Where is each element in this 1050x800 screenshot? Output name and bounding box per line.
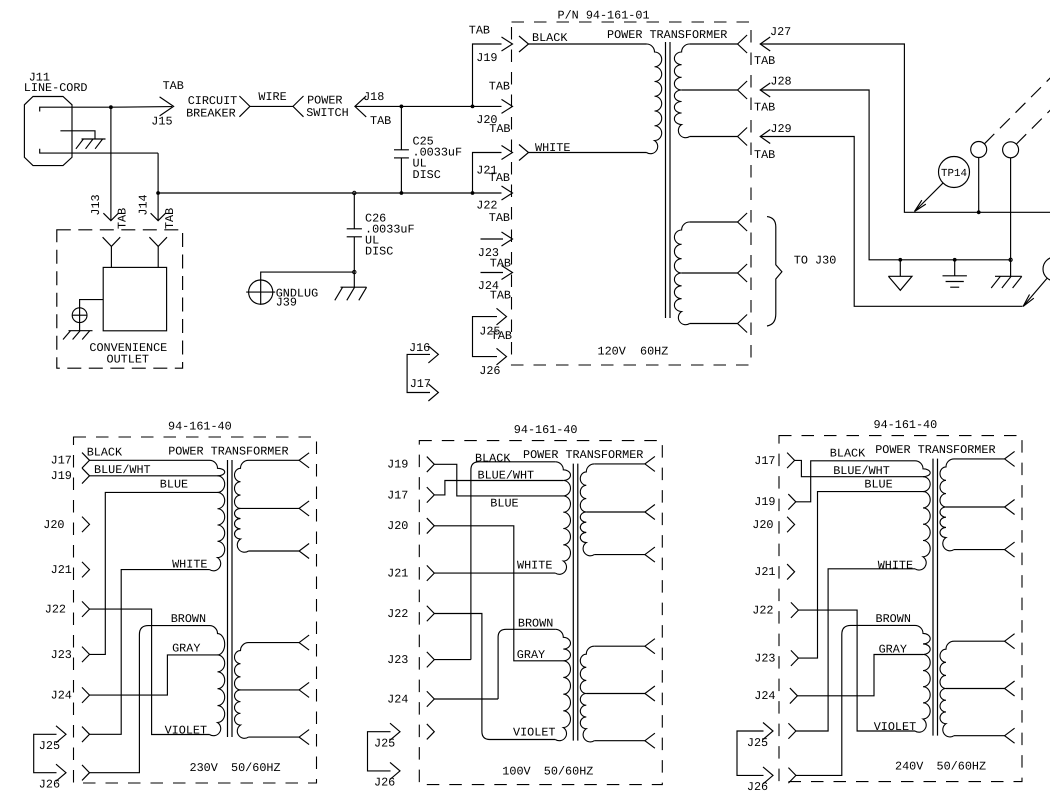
- svg-text:50/60HZ: 50/60HZ: [937, 759, 987, 773]
- wire T4 sec tap 3: [954, 542, 1015, 557]
- connector J22 pin (T4): [791, 602, 799, 618]
- svg-text:J25: J25: [747, 736, 768, 750]
- transformer T3 primary winding lower: [555, 629, 570, 740]
- ground chassis (switch): [991, 276, 1022, 288]
- connector J22 pin (T2): [82, 601, 90, 617]
- wire J13 drop: [110, 107, 112, 221]
- svg-text:J16: J16: [409, 341, 430, 355]
- transformer T4 core: [933, 459, 938, 736]
- svg-text:VIOLET: VIOLET: [513, 726, 555, 740]
- connector J20 pin: [502, 99, 513, 113]
- transformer T1 dashed box: [512, 22, 752, 365]
- svg-text:J17: J17: [410, 377, 431, 391]
- wire WHITE (T4): [796, 559, 915, 732]
- wire J28 (ground bus): [760, 90, 1010, 262]
- svg-text:J17: J17: [51, 454, 72, 468]
- connector J23 stub: [481, 232, 513, 246]
- connector J25 pin (T2): [82, 727, 90, 743]
- wire J19 to BLUE (T3): [434, 464, 563, 510]
- svg-text:J21: J21: [387, 567, 408, 581]
- power switch: [306, 93, 348, 120]
- label C26 value: [365, 211, 415, 258]
- transformer T3 secondary winding lower: [580, 646, 594, 742]
- transformer T1 secondary winding upper: [674, 44, 689, 138]
- svg-text:J21: J21: [51, 563, 72, 577]
- wire WHITE (T1): [529, 152, 647, 154]
- ground triangle: [888, 260, 912, 291]
- wire contact A drop: [977, 158, 981, 215]
- svg-text:TAB: TAB: [754, 148, 775, 162]
- svg-text:50/60HZ: 50/60HZ: [231, 761, 281, 775]
- svg-text:J24: J24: [51, 689, 72, 703]
- svg-text:TP14: TP14: [941, 168, 967, 180]
- svg-text:BLUE: BLUE: [864, 478, 892, 492]
- connector tap chevron (J27): [738, 35, 748, 53]
- wire J24 to BROWN (T3): [434, 617, 555, 700]
- svg-text:WHITE: WHITE: [172, 558, 207, 572]
- svg-text:TAB: TAB: [163, 79, 184, 93]
- svg-text:LINE-CORD: LINE-CORD: [24, 81, 88, 95]
- svg-text:GRAY: GRAY: [879, 643, 907, 657]
- switch contact A: [971, 142, 987, 158]
- wire gndlug to bus: [261, 272, 355, 280]
- connector J21 pin: [502, 146, 513, 160]
- wire tap J28: [682, 89, 738, 91]
- svg-text:100V: 100V: [502, 764, 531, 778]
- connector J26 bracket arrow (T2): [56, 764, 66, 781]
- transformer T4 primary winding lower: [915, 625, 930, 732]
- connector J22 pin (T3): [427, 606, 435, 622]
- connector J17 arrow: [428, 384, 438, 401]
- svg-text:J18: J18: [363, 90, 384, 104]
- TP14 pointer arrow: [915, 183, 944, 212]
- wire J21 branch: [473, 153, 502, 194]
- connector J28 chevron: [760, 83, 770, 97]
- svg-text:J19: J19: [387, 458, 408, 472]
- connector J23 pin (T4): [791, 650, 799, 666]
- svg-text:BROWN: BROWN: [876, 612, 911, 626]
- svg-text:TAB: TAB: [489, 211, 510, 225]
- connector J24 pin (T4): [790, 688, 798, 704]
- svg-text:GRAY: GRAY: [172, 642, 200, 656]
- svg-text:J26: J26: [747, 780, 768, 794]
- convenience outlet dashed box: [57, 230, 183, 368]
- svg-text:J26: J26: [39, 778, 60, 792]
- svg-text:J17: J17: [387, 488, 408, 502]
- svg-text:DISC: DISC: [365, 245, 393, 259]
- svg-text:BLUE: BLUE: [490, 497, 518, 511]
- label CONVENIENCE OUTLET: [89, 341, 167, 366]
- svg-text:94-161-40: 94-161-40: [168, 420, 232, 434]
- switch contact B: [1003, 142, 1019, 158]
- transformer T1 core: [666, 42, 671, 318]
- circuit breaker: [186, 94, 237, 121]
- wire tap J30-a: [690, 213, 748, 231]
- connector J25 bracket arrow (T2): [56, 726, 66, 743]
- capacitor C26: [347, 191, 362, 287]
- svg-text:BREAKER: BREAKER: [186, 107, 236, 121]
- svg-text:DISC: DISC: [413, 168, 441, 182]
- wire BLACK (T1): [529, 43, 647, 45]
- svg-text:120V: 120V: [598, 345, 627, 359]
- wire T3 sec tap 4: [594, 639, 655, 654]
- wire T4 sec tap 1: [954, 451, 1015, 466]
- svg-text:J27: J27: [770, 25, 791, 39]
- connector J26 bracket arrow (T3): [390, 762, 400, 779]
- connector J17 pin (T3): [427, 487, 435, 503]
- svg-text:J20: J20: [387, 519, 408, 533]
- svg-text:50/60HZ: 50/60HZ: [544, 764, 594, 778]
- connector J25 bracket arrow (T3): [390, 723, 400, 740]
- svg-text:BLACK: BLACK: [87, 445, 123, 459]
- svg-text:WIRE: WIRE: [258, 90, 286, 104]
- ground earth: [943, 260, 967, 287]
- label voltage (T2): [190, 761, 281, 775]
- svg-text:TAB: TAB: [489, 171, 510, 185]
- svg-text:J19: J19: [476, 51, 497, 65]
- svg-text:WHITE: WHITE: [878, 559, 913, 573]
- svg-text:SWITCH: SWITCH: [306, 106, 348, 120]
- wire J22 to VIOLET (T4): [798, 610, 916, 734]
- svg-text:TAB: TAB: [491, 329, 512, 343]
- svg-text:J28: J28: [770, 75, 791, 89]
- wire T4 sec tap 4: [954, 634, 1015, 649]
- svg-text:J22: J22: [387, 607, 408, 621]
- transformer T4 dashed box: [779, 436, 1022, 782]
- connector J20 pin (T3): [427, 518, 435, 534]
- plug ground pin: [60, 131, 95, 139]
- transformer T1 secondary winding lower: [674, 222, 689, 325]
- wire J17 to BLUE/WHT (T4): [795, 460, 923, 477]
- svg-text:TAB: TAB: [490, 257, 511, 271]
- connector J15 arrow: [160, 97, 174, 116]
- connector J19 pin: [502, 37, 513, 51]
- wire T2 sec tap 2: [241, 501, 310, 516]
- wire T4 sec tap 2: [946, 500, 1015, 515]
- connector J17 pin (T2): [82, 453, 90, 469]
- svg-text:J25: J25: [39, 739, 60, 753]
- connector J19 pin (T2): [82, 468, 90, 484]
- svg-text:POWER TRANSFORMER: POWER TRANSFORMER: [168, 445, 288, 459]
- connector J25 arrow (T1): [497, 308, 507, 325]
- wire BLACK (T3): [434, 451, 555, 659]
- connector J17 pin (T4): [787, 453, 795, 469]
- connector J25 pin (T4): [788, 723, 796, 739]
- svg-text:BROWN: BROWN: [171, 612, 206, 626]
- wire WHITE (T2): [90, 558, 210, 735]
- wire WIRE segment: [250, 90, 293, 106]
- svg-text:J25: J25: [374, 737, 395, 751]
- connector chevron (breaker out): [239, 96, 250, 117]
- wire BROWN (T4): [796, 612, 915, 775]
- svg-text:J26: J26: [374, 776, 395, 790]
- connector J19 mate chevron: [519, 36, 529, 52]
- connector J25 stub (T3): [427, 724, 435, 740]
- wire J22 to VIOLET (T3): [434, 614, 555, 740]
- svg-text:BLUE/WHT: BLUE/WHT: [478, 468, 535, 482]
- wire contact B drop: [1010, 158, 1012, 276]
- connector J11 plug outline: [24, 97, 72, 166]
- transformer T2 primary winding upper: [210, 460, 225, 571]
- connector tap chevron (J29): [738, 128, 748, 146]
- connector J25 bracket arrow (T4): [763, 723, 773, 740]
- switch dashed line A: [984, 76, 1050, 144]
- outlet ground lug: [72, 300, 103, 331]
- svg-text:94-161-40: 94-161-40: [874, 418, 938, 432]
- wire J19 branch: [473, 44, 502, 106]
- svg-text:TAB: TAB: [754, 101, 775, 115]
- svg-text:BLUE/WHT: BLUE/WHT: [833, 464, 890, 478]
- svg-text:J15: J15: [151, 115, 172, 129]
- svg-text:BLUE: BLUE: [160, 477, 188, 491]
- svg-text:TAB: TAB: [115, 208, 129, 229]
- outlet body: [103, 267, 166, 330]
- svg-text:TAB: TAB: [163, 208, 177, 229]
- connector J24 pin (T2): [82, 687, 90, 703]
- svg-text:VIOLET: VIOLET: [874, 720, 916, 734]
- transformer T3 core: [573, 464, 578, 741]
- wire J19 to BLACK (T4): [796, 447, 915, 502]
- wire T3 sec tap 5: [586, 686, 655, 701]
- wire tap J27: [690, 43, 738, 45]
- wire BROWN (T2): [90, 612, 210, 773]
- svg-text:J20: J20: [43, 518, 64, 532]
- wire neutral bus: [156, 153, 501, 195]
- svg-text:TAB: TAB: [490, 289, 511, 303]
- transformer T2 secondary winding lower: [235, 643, 249, 739]
- wire tap J29: [690, 136, 738, 138]
- connector J24 pin (T3): [427, 691, 435, 707]
- wire BLUE/WHT (T2): [90, 463, 218, 477]
- svg-text:BLUE/WHT: BLUE/WHT: [94, 463, 151, 477]
- svg-text:TAB: TAB: [370, 114, 391, 128]
- wire T3 sec tap 1: [594, 456, 655, 471]
- svg-text:J14: J14: [136, 194, 150, 215]
- capacitor C25: [394, 106, 409, 193]
- ground hatches (plug): [76, 139, 106, 149]
- wire BLUE (T4): [798, 478, 923, 659]
- wire T4 sec tap 6: [954, 728, 1015, 743]
- outlet connector Y right: [149, 237, 167, 267]
- svg-text:BLACK: BLACK: [532, 31, 568, 45]
- ground lug J39: [246, 279, 275, 304]
- wire hot bus (plug to J15): [109, 105, 172, 109]
- connector tap chevron (J28): [738, 81, 748, 99]
- test point TP14: [939, 157, 970, 188]
- TP15 pointer arrow: [1023, 278, 1047, 306]
- wire GRAY (T4): [797, 643, 923, 696]
- svg-text:J26: J26: [479, 364, 500, 378]
- svg-text:J21: J21: [754, 565, 775, 579]
- chassis ground (C26): [335, 287, 367, 300]
- label C25 value: [413, 135, 463, 182]
- connector J26 pin (T2): [82, 765, 90, 781]
- wire GRAY (T2): [90, 642, 218, 696]
- connector J21 mate chevron: [519, 145, 529, 161]
- svg-text:BROWN: BROWN: [518, 617, 553, 631]
- svg-text:J20: J20: [752, 518, 773, 532]
- ground hatches (outlet): [63, 331, 93, 340]
- connector J27 chevron: [760, 37, 770, 51]
- wire tap J30-c: [690, 315, 748, 333]
- svg-text:J13: J13: [89, 194, 103, 215]
- svg-text:240V: 240V: [895, 759, 924, 773]
- svg-text:POWER TRANSFORMER: POWER TRANSFORMER: [607, 28, 727, 42]
- connector J23 pin (T3): [427, 652, 435, 668]
- connector J20 stub (T4): [787, 517, 795, 533]
- svg-text:J23: J23: [387, 653, 408, 667]
- svg-text:J23: J23: [51, 648, 72, 662]
- wire T3 sec tap 3: [594, 547, 655, 562]
- transformer T2 core: [228, 460, 233, 737]
- svg-text:OUTLET: OUTLET: [107, 352, 149, 366]
- transformer T3 dashed box: [419, 441, 662, 785]
- plug hot prong: [40, 107, 111, 111]
- connector J22 pin: [502, 186, 513, 200]
- connector J21 pin (T3): [427, 565, 435, 581]
- junction open circle: [1009, 258, 1012, 261]
- wire T3 sec tap 2: [586, 505, 655, 520]
- transformer T4 secondary winding upper: [940, 459, 954, 551]
- wire T2 sec tap 1: [249, 453, 310, 468]
- connector J13 arrow: [103, 213, 118, 221]
- wire hot bus (J18 to J20): [355, 105, 502, 109]
- test point TP15: [1043, 257, 1050, 281]
- svg-text:J22: J22: [45, 603, 66, 617]
- label GNDLUG J39: [276, 287, 318, 310]
- svg-text:WHITE: WHITE: [517, 559, 552, 573]
- connector J14 arrow: [151, 213, 166, 221]
- connector J18 chevron: [355, 96, 366, 117]
- transformer T2 primary winding lower: [210, 626, 225, 736]
- wire J20 to GRAY (T3): [434, 526, 563, 662]
- label 120V 60HZ: [598, 345, 669, 359]
- wire J14 drop: [157, 193, 159, 221]
- svg-text:J19: J19: [51, 469, 72, 483]
- wire tap J30-b: [682, 264, 748, 282]
- svg-text:TAB: TAB: [489, 80, 510, 94]
- connector J19 pin (T4): [788, 494, 796, 510]
- svg-text:P/N 94-161-01: P/N 94-161-01: [558, 9, 650, 23]
- transformer T1 primary winding: [647, 44, 662, 154]
- connector J23 pin (T2): [82, 647, 90, 663]
- wire BLACK (T2): [87, 445, 210, 460]
- transformer T2 dashed box: [74, 437, 317, 783]
- connector J21 stub (T2): [82, 562, 90, 578]
- bracket J25/J26 (T2): [34, 734, 57, 772]
- svg-text:230V: 230V: [190, 761, 219, 775]
- transformer T4 secondary winding lower: [940, 641, 954, 737]
- connector J26 bracket arrow (T4): [763, 767, 773, 784]
- wire T4 sec tap 5: [946, 681, 1015, 696]
- connector J19 pin (T3): [427, 457, 435, 473]
- connector J24 stub: [481, 266, 513, 280]
- svg-text:BLACK: BLACK: [475, 451, 511, 465]
- svg-text:J24: J24: [754, 689, 775, 703]
- connector J26 arrow (T1): [497, 348, 507, 365]
- svg-text:TO J30: TO J30: [794, 254, 836, 268]
- wire WHITE (T3): [434, 559, 555, 574]
- wire J29: [760, 137, 1022, 307]
- wire T2 sec tap 3: [249, 544, 310, 559]
- svg-text:GRAY: GRAY: [517, 648, 545, 662]
- wire T2 sec tap 6: [249, 730, 310, 745]
- outlet connector Y left: [103, 237, 121, 267]
- svg-text:60HZ: 60HZ: [640, 345, 668, 359]
- bracket J16/J17: [407, 354, 430, 392]
- plug neutral prong: [40, 149, 158, 153]
- bracket J25/J26 (T4): [737, 731, 764, 775]
- wire J22 to VIOLET (T2): [90, 609, 210, 737]
- label J11 LINE-CORD: [24, 71, 88, 96]
- transformer T3 secondary winding upper: [580, 464, 594, 556]
- transformer T2 secondary winding upper: [234, 460, 248, 552]
- connector J16 arrow: [428, 346, 438, 363]
- wire J27: [760, 44, 1050, 212]
- svg-text:J22: J22: [752, 604, 773, 618]
- transformer T4 primary winding upper: [915, 461, 930, 570]
- svg-text:J17: J17: [754, 454, 775, 468]
- wire T2 sec tap 4: [249, 635, 310, 650]
- brace TO J30: [767, 217, 782, 326]
- connector J21 stub (T4): [787, 564, 795, 580]
- svg-text:J29: J29: [770, 122, 791, 136]
- svg-text:TAB: TAB: [469, 24, 490, 38]
- svg-text:BLACK: BLACK: [830, 447, 866, 461]
- svg-text:J23: J23: [754, 652, 775, 666]
- wire BLUE (T2): [90, 477, 218, 654]
- switch dashed line B: [1016, 108, 1050, 144]
- svg-text:POWER TRANSFORMER: POWER TRANSFORMER: [875, 443, 995, 457]
- connector chevron (switch in): [293, 96, 304, 117]
- connector J29 chevron: [760, 130, 770, 144]
- transformer T3 primary winding upper: [555, 462, 570, 575]
- wire T2 sec tap 5: [241, 682, 310, 697]
- bracket J25/J26 (T1): [473, 317, 498, 357]
- label voltage (T4): [895, 759, 986, 773]
- label voltage (T3): [502, 764, 593, 778]
- bracket J25/J26 (T3): [368, 732, 391, 771]
- svg-text:VIOLET: VIOLET: [165, 723, 207, 737]
- connector J26 pin (T4): [788, 768, 796, 784]
- svg-text:POWER TRANSFORMER: POWER TRANSFORMER: [523, 448, 643, 462]
- svg-text:94-161-40: 94-161-40: [514, 423, 578, 437]
- wire T3 sec tap 6: [594, 733, 655, 748]
- svg-text:J24: J24: [387, 692, 408, 706]
- svg-text:J39: J39: [276, 296, 297, 310]
- svg-text:J19: J19: [754, 495, 775, 509]
- wire J17 to BLUE/WHT (T3): [434, 468, 563, 495]
- svg-text:TAB: TAB: [754, 54, 775, 68]
- connector J20 stub (T2): [82, 517, 90, 533]
- svg-text:TAB: TAB: [489, 122, 510, 136]
